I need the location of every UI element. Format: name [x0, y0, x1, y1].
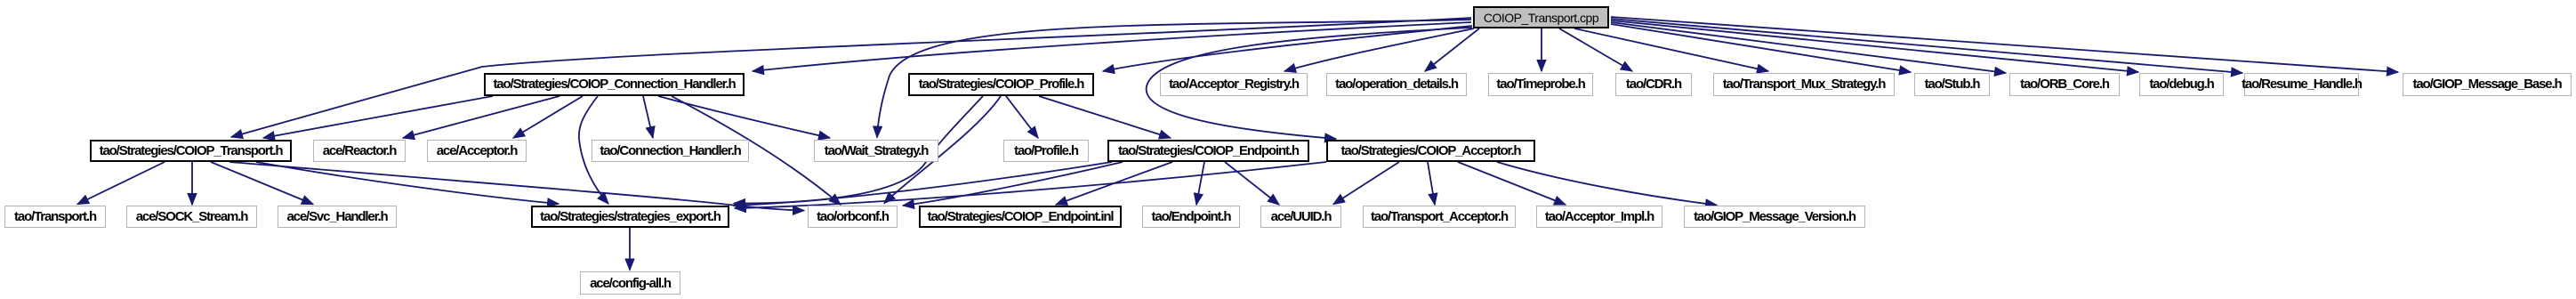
edge tao/Strategies/COIOP_Acceptor.h -> tao/GIOP_Message_Version.h: [1497, 162, 1717, 206]
node tao/debug.h: [2139, 73, 2224, 96]
node ace/Svc_Handler.h: [278, 206, 397, 228]
edge COIOP_Transport.cpp -> tao/Strategies/COIOP_Profile.h: [1103, 26, 1472, 71]
edge tao/Strategies/COIOP_Connection_Handler.h -> tao/Strategies/COIOP_Transport.h: [263, 96, 493, 138]
node tao/Strategies/COIOP_Profile.h: [908, 73, 1094, 96]
node ace/Acceptor.h: [427, 140, 527, 162]
node tao/Acceptor_Registry.h: [1160, 73, 1308, 96]
node tao/Strategies/COIOP_Endpoint.h: [1107, 140, 1309, 162]
edge COIOP_Transport.cpp -> tao/Timeprobe.h: [1541, 28, 1542, 71]
node tao/Transport_Mux_Strategy.h: [1713, 73, 1895, 96]
edge tao/Strategies/COIOP_Endpoint.h -> ace/UUID.h: [1225, 162, 1279, 205]
edge tao/Strategies/COIOP_Endpoint.h -> tao/orbconf.h: [903, 162, 1123, 206]
node tao/Transport.h: [4, 206, 106, 228]
edge tao/Strategies/COIOP_Connection_Handler.h -> tao/Strategies/strategies_export.h: [579, 96, 608, 204]
node tao/Stub.h: [1914, 73, 1990, 96]
edge tao/Strategies/COIOP_Connection_Handler.h -> tao/orbconf.h: [672, 96, 841, 205]
edge COIOP_Transport.cpp -> tao/Strategies/COIOP_Transport.h: [231, 18, 1471, 137]
edge COIOP_Transport.cpp -> tao/debug.h: [1611, 20, 2138, 72]
node tao/Strategies/COIOP_Connection_Handler.h: [484, 73, 745, 96]
edge tao/Strategies/COIOP_Acceptor.h -> tao/Transport_Acceptor.h: [1428, 162, 1435, 205]
edge tao/Strategies/strategies_export.h -> ace/config-all.h: [629, 228, 631, 271]
node tao/Endpoint.h: [1142, 206, 1240, 228]
edge COIOP_Transport.cpp -> tao/Stub.h: [1611, 24, 1911, 72]
node tao/Resume_Handle.h: [2244, 73, 2359, 96]
node tao/Transport_Acceptor.h: [1363, 206, 1516, 228]
edge tao/Strategies/COIOP_Transport.h -> ace/Svc_Handler.h: [211, 162, 313, 205]
node tao/GIOP_Message_Version.h: [1684, 206, 1865, 228]
node tao/Strategies/strategies_export.h: [531, 206, 729, 228]
edge COIOP_Transport.cpp -> tao/Acceptor_Registry.h: [1284, 28, 1474, 71]
edge COIOP_Transport.cpp -> tao/Wait_Strategy.h: [877, 20, 1471, 138]
edge tao/Strategies/COIOP_Endpoint.h -> tao/Strategies/COIOP_Endpoint.inl: [1056, 162, 1172, 205]
node tao/Acceptor_Impl.h: [1536, 206, 1662, 228]
node tao/GIOP_Message_Base.h: [2403, 73, 2572, 96]
node tao/CDR.h: [1615, 73, 1692, 96]
node tao/Strategies/COIOP_Acceptor.h: [1326, 140, 1535, 162]
edge COIOP_Transport.cpp -> tao/Strategies/COIOP_Acceptor.h: [1147, 28, 1472, 139]
node ace/SOCK_Stream.h: [126, 206, 257, 228]
edge COIOP_Transport.cpp -> tao/GIOP_Message_Base.h: [1611, 17, 2398, 72]
node tao/Profile.h: [1003, 140, 1089, 162]
edge tao/Strategies/COIOP_Transport.h -> tao/Transport.h: [77, 162, 165, 205]
edge COIOP_Transport.cpp -> tao/Transport_Mux_Strategy.h: [1574, 28, 1768, 71]
edge COIOP_Transport.cpp -> tao/CDR.h: [1559, 28, 1632, 71]
node ace/config-all.h: [580, 271, 680, 295]
edge COIOP_Transport.cpp -> tao/Resume_Handle.h: [1611, 19, 2242, 73]
node tao/Timeprobe.h: [1488, 73, 1593, 96]
edge tao/Strategies/COIOP_Profile.h -> tao/Profile.h: [1006, 96, 1038, 138]
node COIOP_Transport.cpp: [1473, 6, 1609, 28]
edge tao/Strategies/COIOP_Connection_Handler.h -> tao/Wait_Strategy.h: [658, 96, 830, 138]
node tao/Strategies/COIOP_Transport.h: [90, 140, 292, 162]
edge tao/Strategies/COIOP_Profile.h -> tao/orbconf.h: [884, 96, 1001, 204]
node tao/ORB_Core.h: [2009, 73, 2120, 96]
edge tao/Strategies/COIOP_Profile.h -> tao/Strategies/COIOP_Endpoint.h: [1039, 96, 1171, 138]
edge tao/Strategies/COIOP_Connection_Handler.h -> ace/Reactor.h: [403, 96, 559, 138]
edge tao/Strategies/COIOP_Profile.h -> tao/Strategies/strategies_export.h: [734, 96, 983, 204]
edge tao/Strategies/COIOP_Transport.h -> tao/orbconf.h: [229, 162, 804, 211]
node ace/Reactor.h: [313, 140, 406, 162]
edge tao/Strategies/COIOP_Transport.h -> tao/Strategies/strategies_export.h: [256, 162, 559, 204]
edge COIOP_Transport.cpp -> tao/Strategies/COIOP_Connection_Handler.h: [753, 22, 1471, 71]
edge tao/Strategies/COIOP_Acceptor.h -> tao/Strategies/strategies_export.h: [735, 162, 1326, 208]
edge tao/Strategies/COIOP_Connection_Handler.h -> ace/Acceptor.h: [513, 96, 583, 138]
edge tao/Strategies/COIOP_Acceptor.h -> tao/Acceptor_Impl.h: [1458, 162, 1566, 205]
edge COIOP_Transport.cpp -> tao/ORB_Core.h: [1611, 22, 2006, 73]
node tao/operation_details.h: [1326, 73, 1467, 96]
edge tao/Strategies/COIOP_Transport.h -> ace/SOCK_Stream.h: [191, 162, 193, 205]
edge tao/Strategies/COIOP_Acceptor.h -> ace/UUID.h: [1333, 162, 1399, 205]
node tao/Wait_Strategy.h: [814, 140, 938, 162]
edge tao/Strategies/COIOP_Endpoint.h -> tao/Endpoint.h: [1196, 162, 1204, 205]
edge tao/Strategies/COIOP_Endpoint.h -> tao/Strategies/strategies_export.h: [733, 162, 1112, 206]
node tao/orbconf.h: [808, 206, 898, 228]
node ace/UUID.h: [1260, 206, 1341, 228]
edge COIOP_Transport.cpp -> tao/operation_details.h: [1425, 28, 1479, 71]
node tao/Connection_Handler.h: [592, 140, 749, 162]
edge tao/Strategies/COIOP_Connection_Handler.h -> tao/Connection_Handler.h: [643, 96, 653, 138]
node tao/Strategies/COIOP_Endpoint.inl: [919, 206, 1122, 228]
